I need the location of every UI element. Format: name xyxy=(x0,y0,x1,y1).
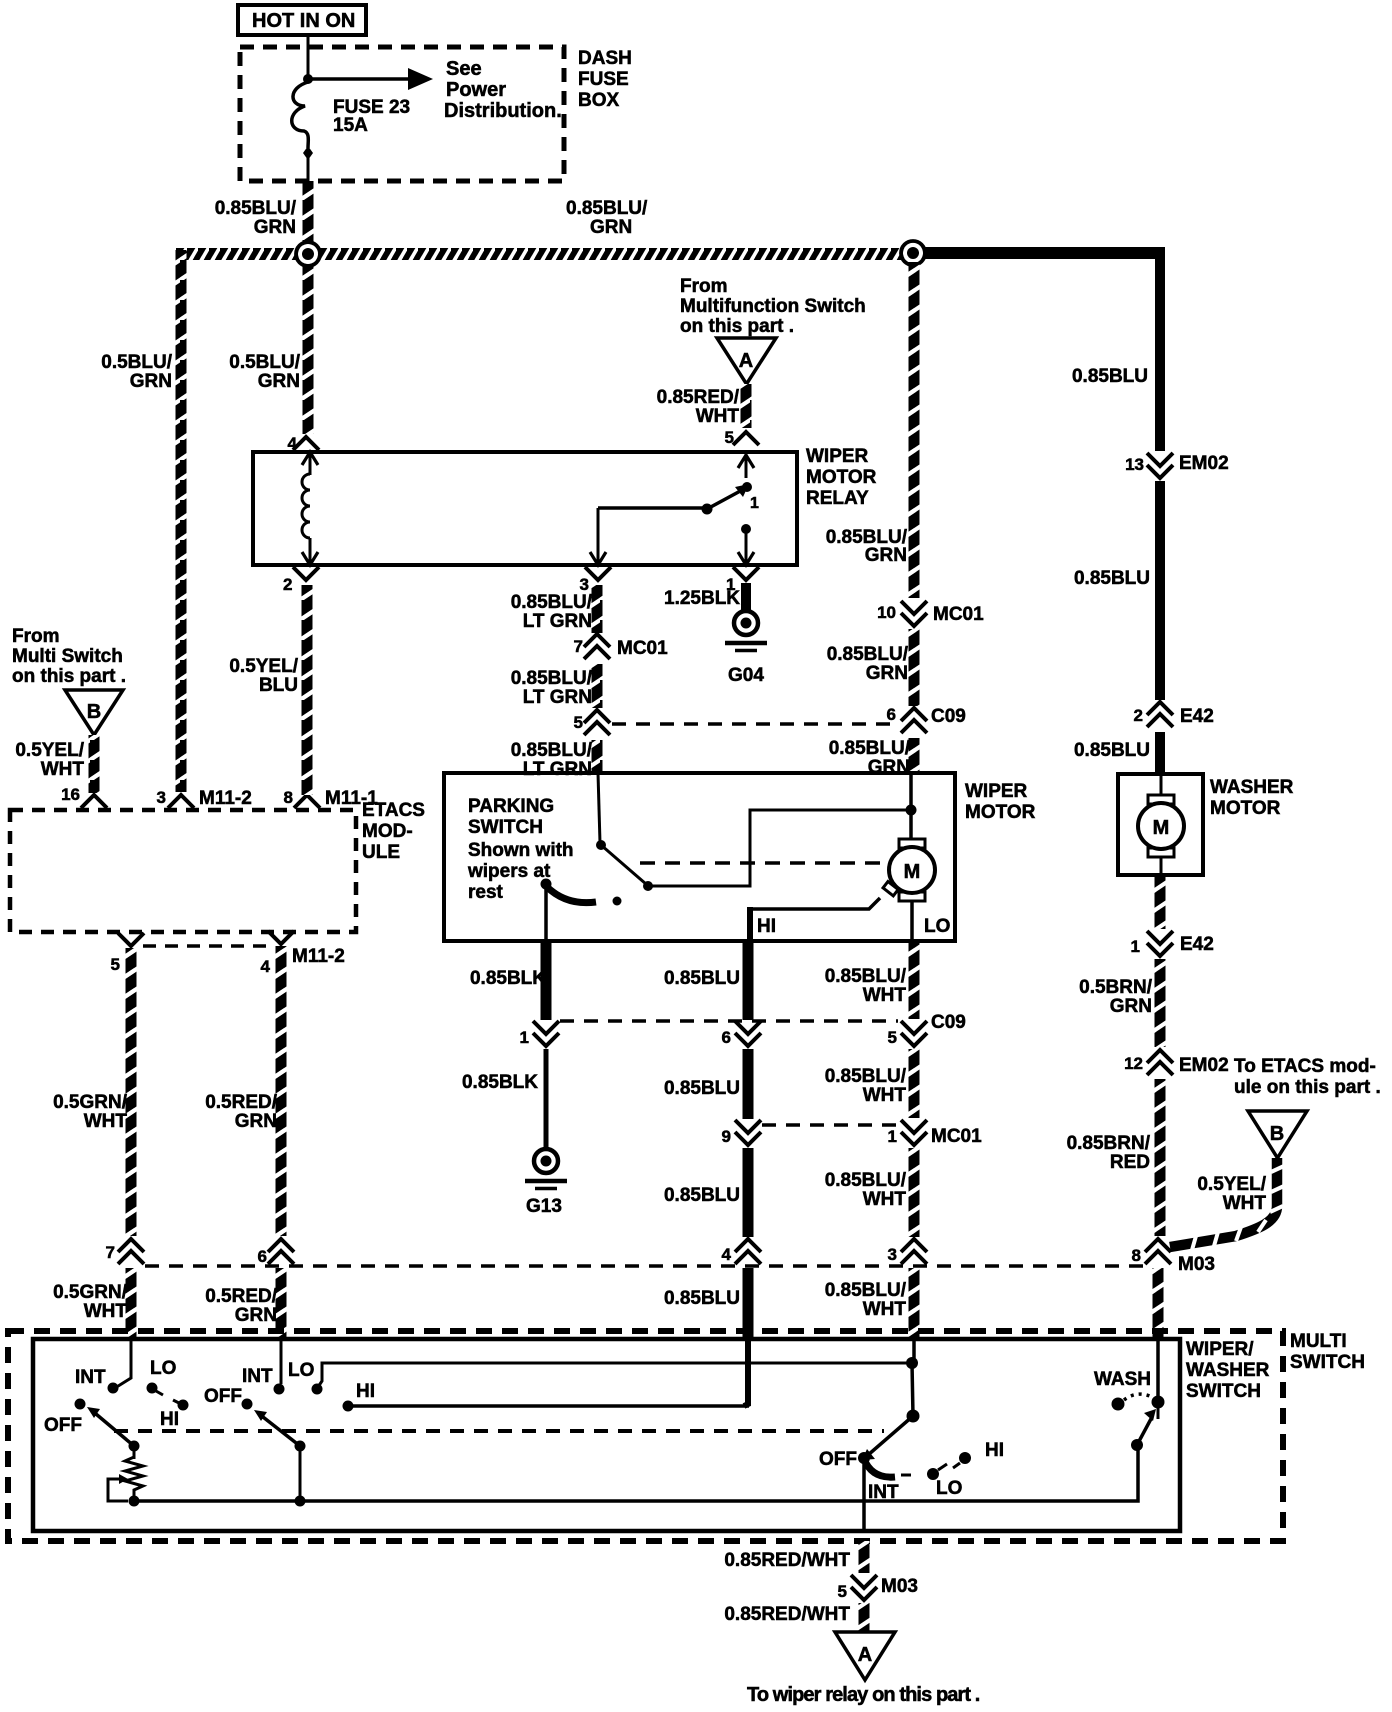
svg-text:OFF: OFF xyxy=(819,1449,857,1470)
wiper switch feed wire xyxy=(280,1339,283,1384)
svg-text:WHT: WHT xyxy=(863,1085,907,1106)
svg-text:12: 12 xyxy=(1124,1054,1143,1073)
int switch bottom node xyxy=(129,1496,140,1507)
svg-text:0.5YEL/: 0.5YEL/ xyxy=(229,656,298,677)
wire: bus down-left to ETACS pin 3 (0.5BLU/GRN) xyxy=(176,250,187,792)
svg-text:8: 8 xyxy=(284,788,293,807)
multi switch outer dashed box xyxy=(8,1331,1283,1541)
connector M03 pin 8 xyxy=(1132,1239,1215,1275)
svg-text:2: 2 xyxy=(1134,706,1143,725)
svg-text:LO: LO xyxy=(936,1478,962,1499)
C09 lower row dashed line xyxy=(560,1019,898,1023)
HI LO labels xyxy=(757,916,950,937)
svg-text:PARKING: PARKING xyxy=(468,796,554,817)
svg-text:0.5GRN/: 0.5GRN/ xyxy=(53,1092,128,1113)
svg-text:0.5RED/: 0.5RED/ xyxy=(205,1286,278,1307)
svg-text:GRN: GRN xyxy=(130,371,172,392)
parking switch throw node xyxy=(643,881,653,891)
relay pin 5 xyxy=(725,428,759,447)
svg-text:9: 9 xyxy=(722,1127,731,1146)
relay pin 3 chevron xyxy=(580,567,611,594)
relay pin 4 xyxy=(288,434,319,453)
svg-text:E42: E42 xyxy=(1180,706,1214,727)
svg-text:MOD-: MOD- xyxy=(362,821,413,842)
int switch pivot node xyxy=(129,1441,140,1452)
label 0.5RED/GRN #2 xyxy=(205,1286,278,1326)
svg-text:Multi Switch: Multi Switch xyxy=(12,646,123,667)
svg-text:M03: M03 xyxy=(1178,1254,1215,1275)
relay pin 3 wire xyxy=(590,508,707,565)
washer motor M xyxy=(1138,774,1184,875)
svg-text:2: 2 xyxy=(283,575,292,594)
wire C09-6 to MC01-9 (0.85BLU thick) xyxy=(743,1049,754,1119)
wire C09-5 to MC01-1 xyxy=(909,1049,920,1118)
svg-text:0.85BLU/: 0.85BLU/ xyxy=(825,1170,907,1191)
connector MC01 pin 9 xyxy=(722,1120,761,1146)
junction ring at fuse drop xyxy=(296,242,320,266)
svg-text:GRN: GRN xyxy=(258,371,300,392)
label 0.5BRN/GRN xyxy=(1079,977,1153,1017)
main switch HI contact xyxy=(953,1452,971,1468)
svg-text:0.85BLU: 0.85BLU xyxy=(1072,366,1148,387)
to ETACS module text xyxy=(1234,1056,1381,1098)
int resistor xyxy=(125,1446,143,1501)
ETACS pin 3 xyxy=(157,788,252,809)
svg-text:0.85BLU/: 0.85BLU/ xyxy=(215,198,297,219)
connector M03 pin 3 xyxy=(888,1239,927,1264)
label 0.85BLU/GRN relay right xyxy=(826,527,908,566)
wire relay pin1 to ground 1.25BLK xyxy=(741,583,751,612)
ETACS module label xyxy=(362,800,425,863)
wire parking switch to motor top xyxy=(648,810,910,886)
svg-text:GRN: GRN xyxy=(1110,996,1152,1017)
relay coil xyxy=(302,452,318,565)
svg-text:BLU: BLU xyxy=(259,675,298,696)
connector C09 pin 5 xyxy=(574,710,610,735)
svg-text:5: 5 xyxy=(725,428,734,447)
svg-text:0.5BRN/: 0.5BRN/ xyxy=(1079,977,1153,998)
wash switch moving contact node xyxy=(1152,1396,1165,1409)
svg-text:LO: LO xyxy=(288,1360,314,1381)
connector E42 pin 1 xyxy=(1131,931,1214,956)
connector M03 pin 6 xyxy=(258,1239,294,1266)
svg-text:7: 7 xyxy=(106,1243,115,1262)
wiper motor relay label xyxy=(806,446,877,509)
svg-text:WASHER: WASHER xyxy=(1186,1360,1270,1381)
svg-text:0.85RED/WHT: 0.85RED/WHT xyxy=(724,1550,850,1571)
wire HI 0.85BLU motor to C09-6 (thick) xyxy=(743,941,754,1020)
connector M03 pin 7 xyxy=(106,1239,144,1264)
svg-text:0.85BRN/: 0.85BRN/ xyxy=(1067,1133,1151,1154)
svg-text:GRN: GRN xyxy=(254,217,296,238)
svg-text:GRN: GRN xyxy=(235,1305,277,1326)
int switch INT contact xyxy=(108,1383,119,1394)
wiper motor relay box xyxy=(253,452,797,565)
svg-text:1: 1 xyxy=(750,495,759,512)
svg-text:GRN: GRN xyxy=(235,1111,277,1132)
wiper switch LO contact xyxy=(312,1384,323,1395)
svg-text:0.85BLK: 0.85BLK xyxy=(462,1072,538,1093)
wire 0.85BLK parking to connector (thick) xyxy=(541,941,552,1020)
svg-text:WIPER: WIPER xyxy=(965,781,1028,802)
bus wire horizontal hatched xyxy=(176,248,913,260)
svg-text:DASH: DASH xyxy=(578,48,632,69)
connector MC01 pin 10 xyxy=(877,601,984,626)
wire M03-4 into multi switch (0.85BLU thick) xyxy=(743,1268,754,1338)
svg-text:HI: HI xyxy=(160,1409,179,1430)
wire OFF output to M03-5 (0.85RED/WHT) xyxy=(859,1541,870,1573)
svg-text:0.85BLU/: 0.85BLU/ xyxy=(827,644,909,665)
wire: hot feed into fuse box xyxy=(307,35,310,82)
wash contact stub xyxy=(1157,1402,1160,1419)
wire motor tab to HI exit xyxy=(750,898,880,909)
label 0.85BLU/WHT xyxy=(825,966,907,1006)
ground G13 xyxy=(525,1149,567,1217)
int switch OFF contact xyxy=(75,1399,86,1410)
svg-text:C09: C09 xyxy=(931,1012,966,1033)
label 0.5YEL/WHT xyxy=(1197,1174,1266,1214)
wire ETACS pin5 to M03-7 (0.5GRN/WHT) xyxy=(126,948,137,1236)
wire 0.85BLU/WHT feed inside box xyxy=(912,1339,916,1363)
label 0.85BLU/GRN left xyxy=(215,198,297,238)
svg-text:8: 8 xyxy=(1132,1246,1141,1265)
multi switch label xyxy=(1290,1331,1365,1373)
svg-text:13: 13 xyxy=(1125,455,1144,474)
wire main switch OFF down and out xyxy=(862,1458,866,1531)
label 0.5YEL/BLU xyxy=(229,656,298,696)
label 0.85BLU/LT GRN xyxy=(511,592,593,632)
wiper motor M xyxy=(889,839,935,941)
main switch INT dash xyxy=(901,1474,911,1477)
int switch HI contact xyxy=(173,1400,189,1411)
power tag HOT IN ON box xyxy=(238,5,366,35)
wire C09-1 to ground (0.85BLK) xyxy=(544,1049,549,1149)
wire MC01-1 to M03-3 xyxy=(909,1148,920,1237)
wire M03-3 into multi switch xyxy=(909,1268,920,1338)
label 0.5GRN/WHT #2 xyxy=(53,1282,128,1322)
wire C09-6 to wiper motor box xyxy=(909,738,920,774)
ground G04 xyxy=(725,611,767,686)
wire B to ETACS pin16 (0.5YEL/WHT) xyxy=(89,735,100,793)
wire bus to MC01-10 (0.85BLU/GRN) xyxy=(909,262,920,598)
svg-text:10: 10 xyxy=(877,603,896,622)
wire EM02-12 to M03-8 (0.85BRN/RED) xyxy=(1155,1079,1166,1236)
svg-text:OFF: OFF xyxy=(204,1386,242,1407)
svg-text:4: 4 xyxy=(722,1245,732,1264)
wire C09-5 to wiper motor box xyxy=(592,740,603,774)
connector A triangle bottom xyxy=(835,1632,895,1680)
connector A triangle top xyxy=(717,338,776,384)
ganged switch linkage dashed line xyxy=(114,1429,884,1433)
svg-text:WHT: WHT xyxy=(84,1301,128,1322)
svg-text:0.5YEL/: 0.5YEL/ xyxy=(1197,1174,1266,1195)
svg-text:on this part .: on this part . xyxy=(680,316,794,337)
svg-text:G13: G13 xyxy=(526,1196,562,1217)
svg-text:RED: RED xyxy=(1110,1152,1150,1173)
dash fuse box label xyxy=(578,48,632,111)
svg-text:HI: HI xyxy=(985,1440,1004,1461)
wiper/washer switch inner box xyxy=(33,1339,1180,1531)
wire washer motor to E42-1 xyxy=(1155,875,1166,929)
wire EM02-13 to E42-2 xyxy=(1155,481,1165,700)
svg-text:GRN: GRN xyxy=(590,217,632,238)
main switch OFF contact xyxy=(858,1452,870,1464)
connector C09 pin 6 xyxy=(887,705,966,733)
svg-text:WHT: WHT xyxy=(863,985,907,1006)
node on common rail xyxy=(295,1496,306,1507)
svg-text:Multifunction Switch: Multifunction Switch xyxy=(680,296,866,317)
svg-text:0.85BLU/: 0.85BLU/ xyxy=(511,740,593,761)
svg-text:HI: HI xyxy=(757,916,776,937)
svg-text:0.85RED/WHT: 0.85RED/WHT xyxy=(724,1604,850,1625)
parking switch feed wire xyxy=(598,773,600,843)
svg-text:rest: rest xyxy=(468,882,504,903)
int switch LO contact xyxy=(147,1383,164,1396)
svg-text:5: 5 xyxy=(888,1028,897,1047)
wire to main switch pivot xyxy=(912,1363,913,1416)
parking switch rest arc (thick) xyxy=(546,886,596,903)
wire LO contact to main switch (LO rail) xyxy=(318,1363,911,1387)
shown with wipers at rest text xyxy=(467,840,574,903)
svg-text:A: A xyxy=(858,1644,872,1666)
svg-text:15A: 15A xyxy=(333,115,368,136)
svg-text:Distribution.: Distribution. xyxy=(444,100,562,122)
ETACS pin 8 xyxy=(284,788,379,809)
wire M03-6 into multi switch (0.5RED/GRN) xyxy=(276,1268,287,1338)
wire E42-1 to EM02-12 (0.5BRN/GRN) xyxy=(1155,959,1166,1047)
node motor top xyxy=(906,805,917,816)
bus wire right solid xyxy=(910,247,1165,259)
wiper switch HI contact xyxy=(343,1401,354,1412)
svg-text:ULE: ULE xyxy=(362,842,400,863)
connector M03 pin 4 xyxy=(722,1239,761,1264)
svg-text:0.85BLU/: 0.85BLU/ xyxy=(825,1280,907,1301)
svg-text:6: 6 xyxy=(258,1247,267,1266)
parking switch common node xyxy=(541,879,552,890)
svg-text:4: 4 xyxy=(288,434,298,453)
label 0.85BLU/GRN right xyxy=(566,198,648,238)
node: fuse tap junction xyxy=(303,74,313,84)
M11-2 bottom connector dashed link xyxy=(143,944,269,948)
svg-text:0.85BLU: 0.85BLU xyxy=(664,1288,740,1309)
parking switch moving contact node xyxy=(596,840,606,850)
dash fuse box (dashed) xyxy=(240,47,564,181)
svg-text:1: 1 xyxy=(1131,937,1140,956)
svg-text:MC01: MC01 xyxy=(933,604,984,625)
svg-text:Power: Power xyxy=(446,79,506,101)
main switch arm arrowhead xyxy=(862,1449,875,1460)
wire 0.85BLU/GRN fuse box to bus xyxy=(303,181,314,251)
svg-text:0.85BLU/: 0.85BLU/ xyxy=(829,738,911,759)
connector C09 pin 1 xyxy=(520,1021,559,1047)
svg-text:WHT: WHT xyxy=(1223,1193,1267,1214)
label 0.5YEL/WHT xyxy=(15,740,84,780)
svg-text:EM02: EM02 xyxy=(1179,1055,1229,1076)
C09 connector row dashed line xyxy=(612,722,896,726)
ETACS module box xyxy=(10,810,356,932)
svg-text:0.85BLU: 0.85BLU xyxy=(664,1078,740,1099)
wire MC01-7 to C09-5 xyxy=(592,664,603,708)
svg-text:RELAY: RELAY xyxy=(806,488,869,509)
svg-text:WIPER: WIPER xyxy=(806,446,869,467)
wiper motor label xyxy=(965,781,1036,823)
svg-text:B: B xyxy=(87,701,101,723)
label 0.85BLU/WHT #3 xyxy=(825,1170,907,1210)
svg-text:1: 1 xyxy=(888,1127,897,1146)
wire 0.85BLU feed inside box xyxy=(744,1339,748,1406)
svg-text:M11-2: M11-2 xyxy=(199,788,252,809)
svg-text:HI: HI xyxy=(356,1381,375,1402)
svg-text:0.5GRN/: 0.5GRN/ xyxy=(53,1282,128,1303)
washer motor label xyxy=(1210,777,1294,819)
connector B triangle right xyxy=(1248,1111,1307,1158)
relay pin 2 xyxy=(283,567,319,594)
wire M03-8 into multi switch box xyxy=(1153,1268,1164,1338)
wire relay pin3 to MC01-7 (0.85BLU/LT GRN) xyxy=(592,585,603,633)
int resistor bypass tap xyxy=(108,1474,128,1501)
label 0.85BLU/LT GRN #2 xyxy=(511,668,593,708)
label 0.5GRN/WHT xyxy=(53,1092,128,1132)
svg-text:WASH: WASH xyxy=(1094,1369,1151,1390)
svg-text:0.85BLK: 0.85BLK xyxy=(470,968,546,989)
wiper/washer switch label xyxy=(1186,1339,1270,1402)
svg-text:WASHER: WASHER xyxy=(1210,777,1294,798)
svg-text:GRN: GRN xyxy=(866,663,908,684)
svg-text:INT: INT xyxy=(75,1367,106,1388)
wiper switch OFF contact xyxy=(242,1399,253,1410)
svg-text:SWITCH: SWITCH xyxy=(1290,1352,1365,1373)
parking switch arm xyxy=(601,845,646,884)
svg-text:LT GRN: LT GRN xyxy=(523,759,592,780)
svg-text:wipers at: wipers at xyxy=(467,861,551,882)
svg-text:SWITCH: SWITCH xyxy=(1186,1381,1261,1402)
svg-text:From: From xyxy=(12,626,60,647)
svg-text:MOTOR: MOTOR xyxy=(965,802,1036,823)
wash switch pivot node xyxy=(1131,1439,1143,1451)
main switch rest arc (thick) xyxy=(864,1459,895,1477)
connector MC01 pin 1 xyxy=(888,1120,983,1147)
fuse FUSE 23 symbol xyxy=(292,82,309,148)
parking switch dashed travel line xyxy=(640,861,884,865)
see power distribution text xyxy=(444,58,562,122)
connector E42 pin 2 xyxy=(1134,702,1214,727)
svg-text:HOT IN ON: HOT IN ON xyxy=(252,10,355,32)
svg-text:0.85BLU/: 0.85BLU/ xyxy=(825,1066,907,1087)
svg-text:3: 3 xyxy=(157,788,166,807)
label 0.5BLU/GRN #2 xyxy=(229,352,300,392)
wash switch arm xyxy=(1137,1409,1156,1445)
svg-text:MOTOR: MOTOR xyxy=(1210,798,1281,819)
svg-text:E42: E42 xyxy=(1180,934,1214,955)
node below fuse xyxy=(303,146,313,160)
svg-text:0.5YEL/: 0.5YEL/ xyxy=(15,740,84,761)
wire: fuse to box edge xyxy=(307,155,310,182)
connector C09 pin 6 lower xyxy=(722,1021,761,1047)
label 0.85BLU/WHT #4 xyxy=(825,1280,907,1320)
svg-text:To ETACS mod-: To ETACS mod- xyxy=(1234,1056,1376,1077)
svg-text:MOTOR: MOTOR xyxy=(806,467,877,488)
svg-text:LT GRN: LT GRN xyxy=(523,611,592,632)
svg-text:ule on this part .: ule on this part . xyxy=(1234,1077,1381,1098)
svg-text:4: 4 xyxy=(261,957,271,976)
svg-text:B: B xyxy=(1270,1123,1284,1145)
label 0.85BLU/LT GRN #3 xyxy=(511,740,593,780)
parking switch label xyxy=(468,796,554,838)
relay switch arm xyxy=(702,452,760,565)
svg-text:FUSE: FUSE xyxy=(578,69,629,90)
svg-text:5: 5 xyxy=(111,955,120,974)
wire HI contact to 0.85BLU feed (HI rail) xyxy=(352,1404,749,1408)
svg-text:A: A xyxy=(739,350,753,372)
svg-text:WHT: WHT xyxy=(863,1299,907,1320)
wire bus corner down to washer motor 0.85BLU solid xyxy=(1155,248,1165,451)
ETACS pin 16 xyxy=(61,785,107,808)
connector C09 pin 5 lower xyxy=(888,1012,966,1047)
label 0.5RED/GRN xyxy=(205,1092,278,1132)
svg-text:0.5RED/: 0.5RED/ xyxy=(205,1092,278,1113)
wire parking common down xyxy=(544,884,548,941)
ETACS pin 5 xyxy=(111,933,144,974)
wiper switch labels xyxy=(204,1360,375,1407)
int switch labels xyxy=(44,1358,179,1436)
svg-text:0.85BLU: 0.85BLU xyxy=(664,1185,740,1206)
svg-text:6: 6 xyxy=(887,705,896,724)
svg-text:5: 5 xyxy=(838,1582,847,1601)
wash switch dotted travel arc xyxy=(1124,1394,1152,1400)
parking switch small contact dot xyxy=(613,897,622,906)
wiper switch arm xyxy=(254,1410,300,1446)
wire LO 0.85BLU/WHT motor to C09-5 xyxy=(909,941,920,1019)
svg-text:1.25BLK: 1.25BLK xyxy=(664,588,740,609)
int switch arm xyxy=(87,1407,134,1446)
ETACS pin 4 xyxy=(261,931,345,976)
wire ETACS pin4 to M03-6 (0.5RED/GRN) xyxy=(276,946,287,1236)
svg-text:LO: LO xyxy=(924,916,950,937)
svg-text:INT: INT xyxy=(242,1366,273,1387)
wiper switch INT contact xyxy=(274,1384,285,1395)
wire B to M03-8 (0.5YEL/WHT) xyxy=(1170,1158,1284,1250)
svg-text:WHT: WHT xyxy=(84,1111,128,1132)
main switch labels xyxy=(819,1440,1004,1503)
wash switch fixed contact xyxy=(1112,1398,1125,1411)
connector B triangle left xyxy=(65,690,123,735)
label 0.85RED/WHT xyxy=(657,387,740,427)
svg-text:M: M xyxy=(904,861,921,883)
label 0.85BRN/RED xyxy=(1067,1133,1151,1173)
label 0.85BLU/WHT #2 xyxy=(825,1066,907,1106)
svg-text:M11-2: M11-2 xyxy=(292,946,345,967)
M03 connector row dashed line xyxy=(145,1264,1143,1268)
svg-text:0.85BLU: 0.85BLU xyxy=(1074,568,1150,589)
from multifunction switch text xyxy=(680,276,866,337)
svg-text:WIPER/: WIPER/ xyxy=(1186,1339,1254,1360)
svg-text:MC01: MC01 xyxy=(931,1126,982,1147)
wiper motor brush tab xyxy=(883,882,898,896)
svg-text:3: 3 xyxy=(888,1245,897,1264)
label 0.85BLU/GRN xyxy=(829,738,911,778)
wire A to relay pin5 0.85RED/WHT xyxy=(741,384,752,428)
relay pin 1 chevron xyxy=(726,567,759,594)
svg-text:6: 6 xyxy=(722,1028,731,1047)
svg-text:SWITCH: SWITCH xyxy=(468,817,543,838)
fuse 23 label xyxy=(333,97,410,136)
svg-text:5: 5 xyxy=(574,713,583,732)
svg-text:WHT: WHT xyxy=(696,406,740,427)
wire relay pin2 to ETACS pin8 (0.5YEL/BLU) xyxy=(302,585,313,795)
svg-text:on this part .: on this part . xyxy=(12,666,126,687)
svg-text:0.85BLU/: 0.85BLU/ xyxy=(566,198,648,219)
svg-text:0.5BLU/: 0.5BLU/ xyxy=(229,352,300,373)
